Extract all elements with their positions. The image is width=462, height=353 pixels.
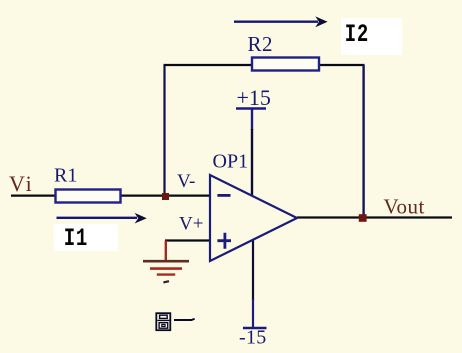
svg-text:V-: V-: [177, 171, 195, 192]
svg-text:+15: +15: [237, 85, 271, 110]
svg-text:OP1: OP1: [213, 151, 249, 173]
svg-text:V+: V+: [179, 214, 203, 235]
svg-text:I2: I2: [345, 20, 369, 49]
svg-text:Vi: Vi: [9, 171, 34, 196]
svg-text:-15: -15: [239, 327, 267, 349]
svg-text:Vout: Vout: [384, 195, 425, 219]
svg-text:R1: R1: [54, 165, 77, 187]
svg-text:I1: I1: [64, 224, 88, 253]
svg-text:R2: R2: [248, 32, 274, 56]
